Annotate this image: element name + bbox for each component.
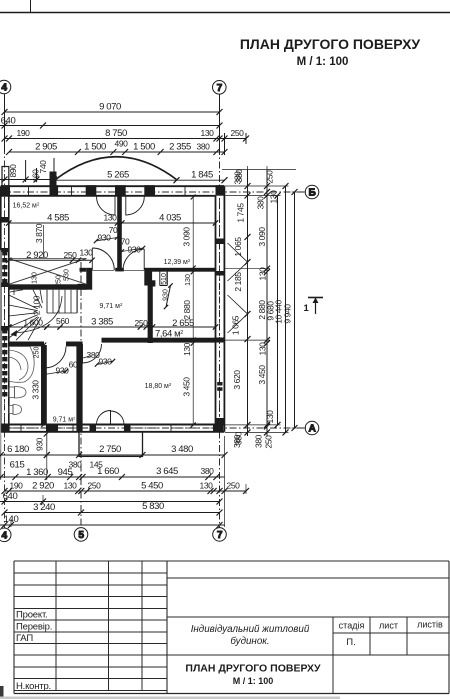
bottom dim row 3240/5830 [5, 512, 220, 514]
svg-text:930: 930 [99, 357, 113, 367]
grid axis Б [0, 191, 306, 193]
wall step near stairs [86, 268, 92, 290]
bottom exterior wall outer face [1, 431, 225, 433]
svg-text:250: 250 [64, 250, 78, 260]
grid axis А [0, 427, 306, 429]
dim 930/380 room18 door [83, 356, 90, 358]
leader diagonals chain A [228, 243, 248, 262]
svg-text:380: 380 [254, 434, 264, 448]
dim row 2905/1500/490/1500/2355/380 [9, 151, 225, 153]
svg-text:3 450: 3 450 [257, 365, 267, 385]
hall door left arc [92, 248, 114, 270]
french door right leaf [111, 411, 125, 425]
dim 930 bath door [45, 371, 67, 375]
svg-text:250: 250 [56, 275, 63, 287]
svg-text:130: 130 [269, 190, 279, 204]
svg-text:3 240: 3 240 [33, 502, 55, 513]
svg-text:5: 5 [78, 530, 84, 541]
svg-text:М / 1: 100: М / 1: 100 [233, 676, 274, 686]
top wall piers [1, 185, 10, 196]
interior wall stair/bath south [9, 342, 44, 347]
svg-text:930: 930 [128, 245, 142, 255]
svg-text:380: 380 [234, 431, 244, 445]
svg-text:380: 380 [201, 466, 215, 476]
door thresholds [92, 269, 114, 271]
grid axis 7 [219, 94, 221, 528]
svg-text:2 880: 2 880 [182, 300, 192, 320]
dim 930 door12 leaders [96, 238, 117, 242]
svg-text:3 645: 3 645 [156, 466, 178, 477]
svg-text:3 090: 3 090 [182, 227, 192, 247]
dim 5265 / 1845 line [56, 179, 225, 181]
svg-text:490: 490 [115, 139, 129, 149]
grid bubble А right [305, 421, 319, 435]
svg-text:1 500: 1 500 [84, 142, 106, 153]
svg-text:530: 530 [64, 269, 71, 281]
svg-text:130: 130 [258, 342, 268, 356]
svg-text:ГАП: ГАП [16, 633, 33, 644]
interior wall corridor/room18 vertical [76, 342, 82, 432]
svg-text:Н.контр.: Н.контр. [16, 681, 51, 692]
svg-text:250: 250 [227, 481, 241, 491]
left wall hatch blocks [2, 251, 7, 255]
balcony door left arc [97, 197, 116, 216]
interior wall below wardrobe [9, 284, 87, 289]
svg-text:Перевір.: Перевір. [16, 622, 52, 633]
bottom extension lines [46, 458, 48, 480]
svg-text:12,39 м2: 12,39 м2 [164, 258, 191, 266]
dim row 190/8750/130/250 [5, 138, 247, 140]
svg-text:740: 740 [38, 160, 48, 174]
svg-text:1 360: 1 360 [26, 467, 48, 478]
svg-text:250: 250 [135, 318, 149, 328]
svg-text:3 870: 3 870 [34, 223, 44, 243]
svg-text:380: 380 [256, 196, 266, 210]
svg-text:380: 380 [197, 142, 211, 152]
toilet [9, 387, 15, 398]
svg-text:930: 930 [56, 366, 70, 376]
bottom wall glass lines [10, 427, 46, 429]
svg-text:Б: Б [308, 188, 315, 199]
dim 10 440 [285, 186, 287, 432]
title block row labels [16, 610, 52, 693]
svg-text:930: 930 [98, 233, 112, 243]
svg-text:510: 510 [161, 273, 168, 285]
svg-text:130: 130 [200, 481, 214, 491]
svg-text:5 450: 5 450 [141, 481, 163, 492]
dim 9 070 [5, 111, 220, 113]
top exterior wall inner face [1, 195, 216, 197]
svg-text:7,64 м2: 7,64 м2 [155, 329, 183, 340]
porch wall stub left [2, 167, 9, 187]
svg-text:7: 7 [217, 530, 223, 541]
svg-text:130: 130 [185, 274, 192, 286]
svg-text:890: 890 [8, 164, 18, 178]
svg-text:3 450: 3 450 [182, 377, 192, 397]
dim 9 940 [294, 192, 296, 428]
grid bubble 4 top [0, 80, 11, 94]
svg-text:190: 190 [10, 481, 24, 491]
svg-text:130: 130 [265, 410, 275, 424]
central thin wall vertical [117, 196, 122, 271]
bathtub [9, 347, 34, 415]
right wall solid segments [216, 239, 225, 245]
svg-text:1 745: 1 745 [236, 203, 246, 223]
svg-text:930: 930 [35, 437, 45, 451]
svg-text:6 180: 6 180 [7, 444, 29, 455]
svg-text:будинок.: будинок. [230, 636, 269, 647]
svg-text:1 500: 1 500 [133, 142, 155, 153]
balcony arc [53, 157, 228, 183]
grid bubble 4 bottom [0, 528, 11, 542]
dim line 3870/3090 verticals [43, 225, 45, 258]
svg-text:9 070: 9 070 [99, 102, 121, 113]
grid axis 4 [0, 93, 306, 528]
svg-text:2 355: 2 355 [169, 142, 191, 153]
svg-text:2 920: 2 920 [26, 250, 48, 261]
interior wall hall south / room 18.80 north [102, 338, 216, 343]
svg-text:2 905: 2 905 [35, 142, 57, 153]
svg-text:250: 250 [264, 435, 274, 449]
svg-text:190: 190 [17, 128, 31, 138]
svg-text:3 385: 3 385 [91, 317, 113, 328]
porch wall stub right [50, 172, 57, 186]
svg-text:9,71 м2: 9,71 м2 [53, 416, 76, 424]
svg-text:Індивідуальний житловий: Індивідуальний житловий [191, 624, 310, 635]
svg-text:130: 130 [258, 267, 268, 281]
staircase winder [9, 290, 77, 341]
svg-text:1 660: 1 660 [97, 466, 119, 477]
wall room12.39 south [144, 268, 215, 272]
svg-text:А: А [308, 424, 316, 435]
sheet top border [0, 12, 450, 14]
dim row rooms top (4585/130/4035) [6, 195, 218, 428]
vertical 930 at balcony [46, 433, 48, 458]
svg-text:лист: лист [379, 621, 398, 631]
wall 7.64 west vertical [148, 282, 153, 344]
svg-text:250: 250 [265, 170, 275, 184]
svg-text:1 845: 1 845 [191, 170, 213, 181]
svg-text:130: 130 [201, 128, 215, 138]
svg-text:3 620: 3 620 [232, 370, 242, 390]
room 12.39 door arc [123, 249, 144, 270]
svg-text:18,80 м2: 18,80 м2 [145, 382, 172, 390]
right dim chain B [266, 170, 268, 437]
extension line top right [222, 166, 296, 186]
svg-text:8 750: 8 750 [105, 128, 127, 139]
svg-text:1 065: 1 065 [233, 237, 243, 257]
bidet [9, 406, 13, 414]
right exterior wall inner face [215, 196, 217, 425]
svg-text:ПЛАН ДРУГОГО ПОВЕРХУ: ПЛАН ДРУГОГО ПОВЕРХУ [240, 36, 421, 52]
right wall window glass lines [219, 198, 221, 237]
left exterior wall inner face [8, 186, 10, 432]
svg-text:130: 130 [80, 247, 94, 257]
svg-text:640: 640 [1, 116, 16, 127]
svg-text:130: 130 [32, 272, 39, 284]
dim row hall 3385/250/2655 [9, 326, 216, 328]
svg-text:130: 130 [104, 213, 118, 223]
svg-text:250: 250 [34, 347, 41, 359]
bottom dim row 1640 [0, 501, 220, 503]
bottom dim row 6180/2750/3480 [0, 431, 249, 529]
balcony slab [79, 432, 143, 457]
svg-text:2 750: 2 750 [99, 444, 121, 455]
svg-text:1 600: 1 600 [23, 318, 43, 328]
page scan artifacts [0, 250, 2, 450]
svg-text:16,52 м2: 16,52 м2 [13, 202, 40, 210]
dim 9 680 [277, 196, 279, 425]
wardrobe cross [9, 259, 87, 285]
svg-text:1 065: 1 065 [231, 315, 241, 335]
bottom exterior wall inner face [1, 424, 225, 426]
svg-text:380: 380 [69, 460, 83, 470]
left wall solid segments [1, 217, 9, 223]
grid bubble 7 top [213, 81, 227, 95]
dim row 890/460/740 [0, 158, 57, 183]
right wall vent blocks [217, 382, 222, 386]
dim vertical 2880/130/3450 [192, 272, 194, 425]
svg-text:2 185: 2 185 [233, 272, 243, 292]
svg-text:3 480: 3 480 [171, 444, 193, 455]
bottom dim row 615... [0, 476, 225, 478]
section mark 1 [308, 298, 323, 315]
svg-text:4 035: 4 035 [159, 213, 181, 224]
svg-text:60: 60 [69, 360, 78, 370]
dim row 2920/250/130 [9, 259, 92, 261]
svg-text:140: 140 [4, 514, 19, 525]
svg-text:380: 380 [234, 169, 244, 183]
grid bubble 7 bottom [213, 528, 227, 542]
svg-text:640: 640 [3, 491, 18, 502]
bottom wall piers [1, 424, 9, 432]
left exterior wall outer face [0, 186, 2, 432]
top wall window jambs [28, 186, 30, 196]
dim vertical bath 250/3330 [43, 345, 45, 425]
svg-text:ПЛАН ДРУГОГО ПОВЕРХУ: ПЛАН ДРУГОГО ПОВЕРХУ [185, 663, 321, 675]
right exterior wall outer face [223, 186, 225, 432]
svg-text:250: 250 [231, 128, 245, 138]
svg-text:2 920: 2 920 [32, 481, 54, 492]
french door left leaf [97, 411, 111, 425]
dim vertical 510/130 room12 [166, 272, 168, 284]
extension lines right [225, 185, 289, 187]
svg-text:250: 250 [88, 481, 102, 491]
svg-text:5 265: 5 265 [107, 170, 129, 181]
sheet top-left tick [30, 0, 32, 13]
svg-text:9,71 м2: 9,71 м2 [100, 302, 123, 310]
dim 1 640 row [0, 125, 220, 127]
bottom dim row 190... [5, 490, 247, 492]
svg-text:3 330: 3 330 [31, 380, 41, 400]
svg-text:615: 615 [10, 460, 25, 471]
left wall window glass [4, 197, 6, 216]
top exterior wall outer face [1, 185, 225, 187]
svg-text:4 585: 4 585 [47, 213, 69, 224]
bath corridor door arc [45, 347, 67, 369]
svg-text:3 090: 3 090 [257, 227, 267, 247]
bottom dim row 140 [0, 524, 225, 526]
grid bubble Б right [305, 185, 319, 199]
svg-text:П.: П. [346, 637, 355, 648]
svg-text:М / 1: 100: М / 1: 100 [297, 56, 349, 68]
svg-text:130: 130 [64, 481, 78, 491]
svg-text:стадія: стадія [339, 621, 365, 631]
balcony door right arc [126, 197, 145, 216]
svg-text:130: 130 [182, 342, 192, 356]
svg-text:7: 7 [217, 83, 223, 94]
svg-text:4: 4 [1, 83, 7, 94]
right dim chain A [225, 170, 306, 437]
grid bubble 5 bottom [74, 528, 88, 542]
title block grid [14, 561, 449, 694]
svg-text:листів: листів [417, 620, 443, 630]
room 18.80 door arc [83, 344, 102, 363]
svg-text:2 100: 2 100 [32, 295, 42, 315]
grid axis 5 [80, 262, 82, 528]
svg-text:5 830: 5 830 [142, 501, 164, 512]
svg-text:9 940: 9 940 [283, 304, 293, 324]
svg-text:Проект.: Проект. [16, 610, 47, 621]
interior wall bath right vertical [41, 345, 47, 425]
svg-text:4: 4 [2, 530, 8, 541]
